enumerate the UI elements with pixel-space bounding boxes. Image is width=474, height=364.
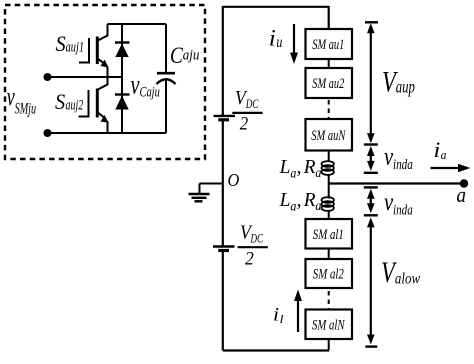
svg-text:aup: aup: [396, 77, 415, 97]
wire: DC bus top: [223, 6, 329, 8]
wire: DC bus bottom: [223, 349, 329, 351]
svg-text:i: i: [434, 137, 441, 162]
submodule detail inset dashed box: [5, 5, 205, 159]
svg-text:auj2: auj2: [66, 98, 84, 114]
capacitor C_aju: [165, 24, 167, 73]
svg-text:2: 2: [245, 249, 254, 270]
svg-text:i: i: [273, 305, 279, 326]
svg-text:L: L: [279, 157, 291, 178]
svg-text:SM al1: SM al1: [313, 227, 344, 243]
wire: dashed link: [328, 100, 330, 119]
wire: submodule midpoint: [48, 76, 123, 78]
submodule box SM auN: [306, 119, 353, 151]
svg-text:auj1: auj1: [66, 40, 85, 56]
svg-text:R: R: [303, 157, 316, 178]
wire: junction down to lower inductor: [328, 184, 330, 199]
svg-text:DC: DC: [250, 230, 263, 245]
svg-text:L: L: [279, 190, 291, 211]
svg-text:DC: DC: [245, 96, 258, 111]
diode D1 (upper, antiparallel): [121, 24, 123, 77]
svg-text:v: v: [131, 69, 140, 99]
wire: [328, 249, 330, 260]
measure arrow v_inda lower: [364, 186, 378, 188]
svg-text:C: C: [170, 43, 183, 69]
svg-text:2: 2: [240, 114, 249, 135]
wire: submodule top rail: [108, 23, 167, 25]
svg-text:SM au2: SM au2: [312, 76, 344, 92]
node: upper terminal dot: [44, 73, 52, 81]
svg-text:a: a: [315, 198, 321, 213]
wire: phase output: [329, 182, 464, 184]
wire: ground stub: [200, 183, 223, 185]
svg-text:R: R: [303, 190, 316, 211]
svg-text:a: a: [315, 165, 321, 180]
svg-text:S: S: [56, 31, 66, 56]
current arrow i_u: [293, 24, 295, 54]
submodule box SM au1: [306, 29, 353, 59]
node a dot: [460, 179, 468, 187]
transistor S_auj1 (upper IGBT): [79, 24, 108, 77]
transistor S_auj2 (lower IGBT): [79, 77, 108, 133]
wire: top drop to upper arm: [328, 6, 330, 29]
submodule box SM al1: [306, 219, 353, 249]
submodule box SM al2: [306, 259, 353, 288]
svg-text:i: i: [269, 26, 276, 51]
current arrow i_a: [431, 167, 459, 169]
svg-text:aju: aju: [183, 47, 200, 63]
svg-text:a: a: [457, 182, 467, 207]
ground: [189, 184, 210, 202]
svg-text:SM al2: SM al2: [313, 267, 344, 283]
svg-text:inda: inda: [393, 157, 413, 173]
measure arrow V_aup: [364, 22, 378, 144]
inductor L_a upper: [322, 161, 334, 175]
submodule box SM alN: [306, 310, 353, 340]
wire: left rail lower: [222, 252, 224, 351]
svg-text:SMju: SMju: [15, 100, 36, 117]
wire: submodule bottom rail: [48, 132, 167, 134]
wire: upper arm to inductor: [328, 151, 330, 163]
svg-text:SM au1: SM au1: [312, 37, 344, 53]
measure arrow v_inda upper: [370, 150, 372, 167]
inductor L_a lower: [322, 197, 334, 211]
battery V_DC/2 upper: [214, 115, 236, 117]
svg-text:,: ,: [297, 190, 302, 211]
diode D2 (lower, antiparallel): [121, 77, 123, 133]
wire: dashed link: [328, 291, 330, 310]
svg-text:SM auN: SM auN: [311, 128, 346, 144]
svg-text:a: a: [441, 147, 447, 162]
svg-text:S: S: [55, 89, 65, 114]
svg-text:inda: inda: [393, 202, 413, 218]
svg-text:,: ,: [297, 157, 302, 178]
svg-text:SM alN: SM alN: [312, 318, 345, 334]
battery V_DC/2 lower: [213, 245, 235, 247]
submodule box SM au2: [306, 68, 353, 98]
wire: left rail middle: [222, 121, 224, 247]
wire: [328, 339, 330, 351]
svg-text:alow: alow: [395, 270, 421, 287]
measure arrow V_alow: [370, 224, 372, 337]
current arrow i_l: [297, 299, 299, 332]
wire: [328, 59, 330, 68]
svg-text:u: u: [276, 34, 282, 51]
svg-text:Caju: Caju: [140, 85, 160, 101]
wire: left rail upper: [222, 6, 224, 115]
node: lower terminal dot: [44, 129, 52, 137]
svg-text:O: O: [228, 170, 240, 190]
